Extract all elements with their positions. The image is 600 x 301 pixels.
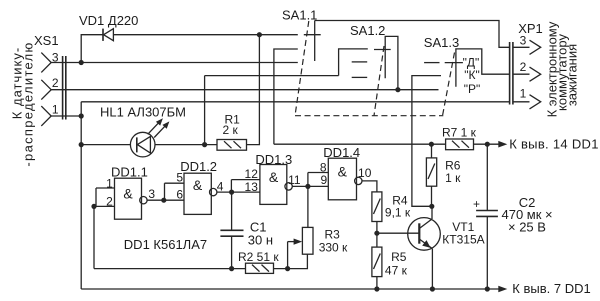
svg-text:DD1.2: DD1.2 bbox=[180, 159, 217, 174]
node: R6 top bbox=[429, 142, 434, 147]
diode VD1 with wire y=34.7 bbox=[81, 29, 298, 63]
resistor R1 bbox=[217, 140, 247, 151]
node: LED row bbox=[79, 142, 84, 147]
wire: R1 right up to VD1 line bbox=[247, 35, 260, 145]
svg-text:9: 9 bbox=[321, 173, 328, 187]
svg-text:VD1 Д220: VD1 Д220 bbox=[79, 13, 138, 28]
svg-text:XS1: XS1 bbox=[34, 33, 59, 48]
node: C1 bottom bbox=[229, 266, 234, 271]
LED HL1 АЛ307БМ bbox=[130, 118, 169, 157]
svg-text:1: 1 bbox=[520, 87, 527, 101]
svg-text:DD1 К561ЛА7: DD1 К561ЛА7 bbox=[124, 237, 207, 252]
node: DD1.1 inputs bbox=[91, 204, 96, 209]
wire: bottom bus y=289 bbox=[81, 286, 507, 293]
node: VD1/pin3 row bbox=[79, 60, 84, 65]
svg-text:HL1 АЛ307БМ: HL1 АЛ307БМ bbox=[100, 105, 186, 120]
wire: LED row y=144.6 bbox=[81, 144, 130, 146]
wire: feedback line y=268.6 bbox=[94, 268, 246, 270]
svg-text:К выв. 14 DD1: К выв. 14 DD1 bbox=[509, 137, 599, 152]
wire: y=75.6 line to SA1.2 contact bbox=[205, 75, 339, 77]
node: LED/R1 junction bbox=[202, 142, 207, 147]
svg-text:5: 5 bbox=[176, 171, 183, 185]
switch mechanical link (dashed) bbox=[295, 21, 455, 116]
wire: R6 bottom to collector node bbox=[431, 186, 433, 206]
wire: base wire bbox=[377, 232, 419, 234]
svg-text:2: 2 bbox=[52, 76, 59, 90]
wire: rail y=20.5 to XP1 pin3 bbox=[315, 21, 510, 48]
wire + arrow: К выв. 14 DD1 bbox=[474, 141, 508, 148]
svg-text:R5: R5 bbox=[391, 250, 407, 264]
gate DD1.4 bbox=[328, 158, 362, 200]
svg-text:4: 4 bbox=[217, 180, 224, 194]
svg-text:R7 1 к: R7 1 к bbox=[442, 126, 477, 140]
svg-text:&: & bbox=[193, 177, 203, 193]
label left: К датчику-распределителю (rotated) bbox=[10, 41, 36, 166]
node: C2 bottom bbox=[485, 286, 490, 291]
svg-text:"Р": "Р" bbox=[464, 82, 481, 96]
node: emitter bus bbox=[430, 286, 435, 291]
wire: top net y=144.2 (SA1.1 contact to R7) bbox=[274, 143, 446, 145]
svg-text:&: & bbox=[123, 186, 133, 202]
svg-text:+: + bbox=[473, 197, 480, 211]
svg-text:SA1.2: SA1.2 bbox=[350, 23, 385, 38]
node: R7 right / C2 bbox=[485, 142, 490, 147]
wire: XS1 pin3 row y=62.5 bbox=[51, 62, 298, 64]
connector XS1 (socket, pins 3/2/1) bbox=[41, 53, 66, 126]
svg-text:330 к: 330 к bbox=[319, 241, 348, 255]
svg-text:10: 10 bbox=[358, 166, 372, 180]
svg-text:-распределителю: -распределителю bbox=[21, 41, 36, 166]
svg-text:3: 3 bbox=[148, 187, 155, 201]
wire: R4 bottom to base node bbox=[376, 222, 378, 248]
svg-text:SA1.3: SA1.3 bbox=[424, 35, 459, 50]
wire: XS1 pin2 row y=89.7 bbox=[51, 89, 438, 91]
svg-text:КТ315А: КТ315А bbox=[442, 233, 484, 247]
svg-text:× 25 В: × 25 В bbox=[508, 220, 546, 235]
wire: R5 bottom to bus bbox=[376, 277, 378, 289]
svg-text:&: & bbox=[269, 169, 279, 185]
resistor R6 bbox=[426, 158, 436, 186]
svg-text:DD1.1: DD1.1 bbox=[111, 165, 148, 180]
svg-text:DD1.3: DD1.3 bbox=[255, 152, 292, 167]
wire: XS1 pin1 stub bbox=[51, 115, 81, 117]
switch SA1.3 bbox=[412, 49, 510, 206]
node: DD1.2 out bbox=[229, 190, 234, 195]
svg-text:R3: R3 bbox=[325, 228, 341, 242]
node: R4/R5/base bbox=[374, 231, 379, 236]
transistor VT1 bbox=[408, 206, 441, 289]
capacitor C2 bbox=[473, 144, 498, 289]
node: XS1 pin1 bbox=[79, 113, 84, 118]
node: SA1.2 pole / pin2 row bbox=[395, 87, 400, 92]
svg-text:&: & bbox=[338, 164, 348, 180]
svg-text:зажигания: зажигания bbox=[565, 44, 580, 106]
svg-text:9,1 к: 9,1 к bbox=[385, 206, 411, 220]
wire: R2 right to R3 bottom bbox=[274, 254, 308, 268]
svg-text:6: 6 bbox=[176, 188, 183, 202]
wire: DD1.1 inputs tied bbox=[94, 188, 115, 269]
svg-text:13: 13 bbox=[245, 180, 259, 194]
node: R5 bottom bbox=[374, 286, 379, 291]
resistor R5 bbox=[372, 247, 382, 277]
wire: R6 top to y=144.2 line bbox=[431, 144, 433, 158]
wire: DD1.1 out to DD1.2 in bbox=[147, 183, 184, 200]
node: DD1.1 out bbox=[161, 198, 166, 203]
wire: line to XP1 pin1 y=101.8 bbox=[81, 101, 509, 103]
node: R3 wiper tail bbox=[285, 266, 290, 271]
svg-text:К выв. 7 DD1: К выв. 7 DD1 bbox=[512, 281, 590, 296]
wire: DD1.2 junction down to C1 bbox=[231, 192, 233, 230]
wire: DD1.4 out to R4 bbox=[362, 181, 377, 192]
svg-text:47 к: 47 к bbox=[385, 264, 408, 278]
node: DD1.3 out bbox=[305, 184, 310, 189]
resistor R7 bbox=[446, 139, 474, 150]
svg-text:1: 1 bbox=[52, 103, 59, 117]
svg-text:1 к: 1 к bbox=[445, 171, 461, 185]
wire: DD1.2 out to DD1.3 in bbox=[217, 180, 260, 193]
node: VD1 line / R1 bbox=[257, 32, 262, 37]
resistor R2 bbox=[246, 263, 274, 273]
svg-text:DD1.4: DD1.4 bbox=[323, 145, 360, 160]
connector XP1 (plug, pins 3/2/1) bbox=[510, 40, 541, 109]
wire: vertical x=204.6 from LED row up to y=75.6 bbox=[204, 76, 206, 145]
wire: DD1.3 out to DD1.4 in bbox=[292, 173, 328, 187]
svg-text:30 н: 30 н bbox=[248, 233, 273, 248]
gate DD1.1 bbox=[115, 178, 148, 219]
gate DD1.2 bbox=[184, 173, 217, 214]
svg-text:2: 2 bbox=[520, 60, 527, 74]
capacitor C1 bbox=[220, 230, 243, 268]
switch SA1.1 bbox=[274, 21, 321, 145]
svg-text:SA1.1: SA1.1 bbox=[282, 8, 317, 23]
node: collector/R6 bbox=[429, 204, 434, 209]
wire: common vertical x=81.2 bbox=[80, 102, 82, 289]
svg-text:R2 51 к: R2 51 к bbox=[238, 250, 279, 264]
svg-text:11: 11 bbox=[288, 173, 301, 187]
wire: DD1.3 junction down to R3 bbox=[307, 186, 309, 227]
gate DD1.3 bbox=[260, 165, 292, 205]
label right: К электронному коммутатору зажигания (rotated) bbox=[545, 21, 580, 117]
svg-text:2 к: 2 к bbox=[223, 123, 239, 137]
svg-text:"К": "К" bbox=[464, 68, 480, 82]
svg-text:3: 3 bbox=[520, 33, 527, 47]
resistor R3 (variable) bbox=[288, 227, 313, 268]
switch SA1.2 bbox=[339, 36, 398, 89]
svg-text:12: 12 bbox=[245, 167, 259, 181]
resistor R4 bbox=[372, 192, 382, 222]
